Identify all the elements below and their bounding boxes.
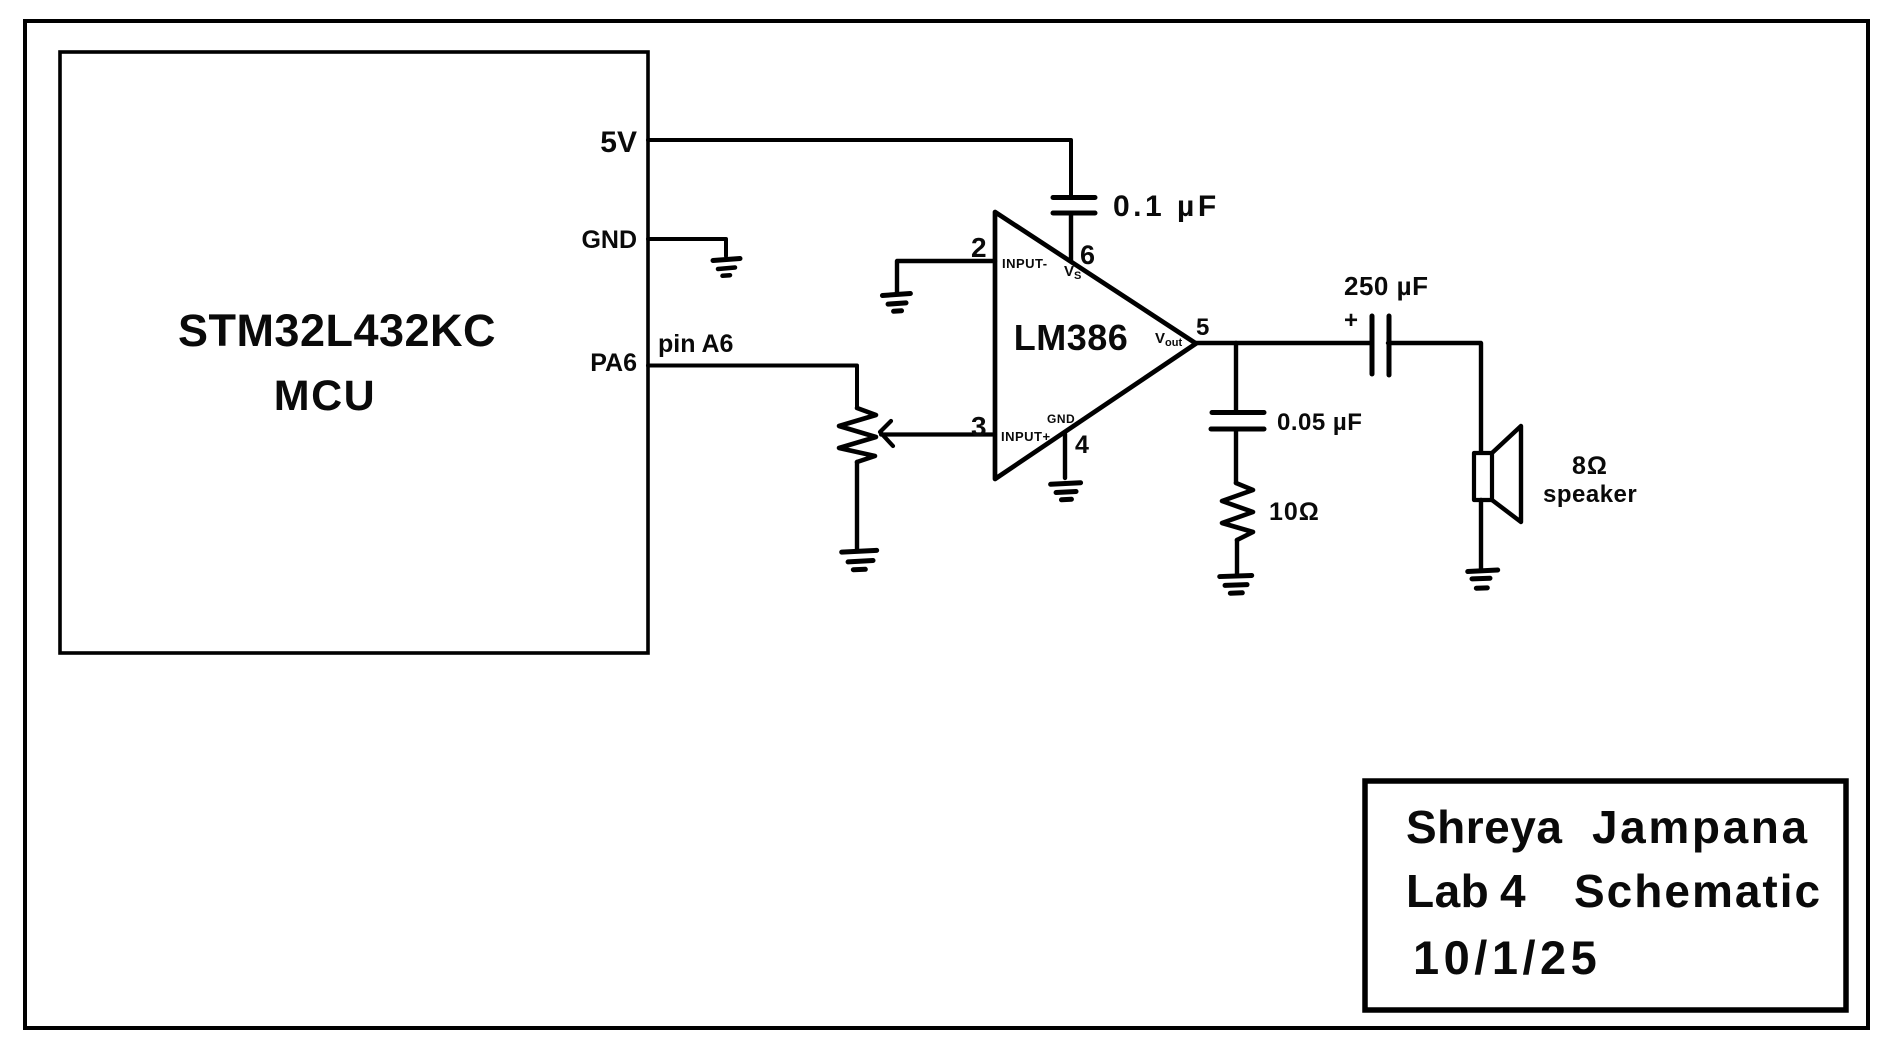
potentiometer R1 bbox=[839, 408, 893, 462]
svg-text:S: S bbox=[1074, 270, 1081, 282]
svg-text:0.1 µF: 0.1 µF bbox=[1113, 190, 1220, 223]
wire R2 to ground bbox=[1235, 540, 1239, 574]
svg-text:V: V bbox=[1155, 330, 1165, 347]
svg-text:PA6: PA6 bbox=[590, 349, 637, 377]
svg-text:+: + bbox=[1344, 307, 1358, 334]
svg-text:STM32L432KC: STM32L432KC bbox=[178, 305, 496, 356]
speaker LS1 bbox=[1474, 426, 1521, 522]
svg-text:GND: GND bbox=[1047, 412, 1075, 426]
svg-text:6: 6 bbox=[1080, 240, 1095, 270]
MCU U1 STM32L432KC bbox=[60, 52, 648, 653]
svg-text:0.05 µF: 0.05 µF bbox=[1277, 409, 1362, 436]
wire C1 to op-amp pin 6 bbox=[1069, 215, 1073, 261]
ground (pin 2) bbox=[882, 294, 911, 312]
op-amp U1 LM386 bbox=[995, 212, 1196, 479]
ground (MCU GND) bbox=[713, 259, 740, 276]
wire C3 to speaker bbox=[1388, 343, 1481, 452]
svg-text:5V: 5V bbox=[600, 126, 637, 159]
svg-text:V: V bbox=[1064, 263, 1074, 280]
ground (pin 4) bbox=[1051, 483, 1082, 501]
capacitor C1 0.1uF bbox=[1053, 198, 1095, 214]
label 8 ohm speaker bbox=[1543, 452, 1637, 508]
wire C2 to R2 bbox=[1234, 431, 1238, 483]
ground (potentiometer) bbox=[842, 550, 878, 570]
svg-text:4: 4 bbox=[1075, 431, 1089, 459]
svg-text:Lab4Schematic: Lab4Schematic bbox=[1406, 865, 1822, 917]
capacitor C3 250uF bbox=[1372, 316, 1389, 375]
svg-text:250 µF: 250 µF bbox=[1344, 271, 1428, 301]
wire pot wiper to op-amp pin 3 bbox=[881, 432, 995, 436]
svg-text:ShreyaJampana: ShreyaJampana bbox=[1406, 801, 1810, 853]
svg-text:2: 2 bbox=[971, 232, 987, 263]
wire speaker to ground bbox=[1479, 500, 1483, 569]
svg-text:out: out bbox=[1165, 337, 1182, 349]
wire op-amp pin 4 to ground bbox=[1063, 434, 1067, 478]
wire Vout node 5 to C3 bbox=[1196, 341, 1372, 345]
svg-text:LM386: LM386 bbox=[1014, 317, 1129, 358]
ground (R2) bbox=[1220, 575, 1253, 593]
wire node 5 to C2 bbox=[1234, 343, 1238, 411]
svg-text:3: 3 bbox=[971, 411, 987, 442]
svg-text:5: 5 bbox=[1196, 314, 1209, 341]
wire potentiometer to ground bbox=[855, 462, 859, 550]
svg-text:8Ω: 8Ω bbox=[1572, 452, 1608, 480]
resistor R2 10ohm bbox=[1222, 483, 1253, 540]
svg-text:10/1/25: 10/1/25 bbox=[1413, 931, 1601, 984]
svg-text:INPUT+: INPUT+ bbox=[1001, 429, 1051, 444]
wire 5V from MCU to C1 bbox=[648, 140, 1071, 196]
capacitor C2 0.05uF bbox=[1211, 413, 1264, 430]
wire op-amp pin 2 to ground bbox=[897, 261, 995, 293]
svg-text:speaker: speaker bbox=[1543, 481, 1637, 508]
ground (speaker) bbox=[1468, 570, 1499, 589]
wire MCU GND pin bbox=[648, 239, 726, 256]
title block bbox=[1365, 781, 1846, 1010]
wire PA6 from MCU to potentiometer bbox=[648, 366, 857, 409]
svg-text:INPUT-: INPUT- bbox=[1002, 256, 1048, 271]
svg-text:GND: GND bbox=[581, 226, 637, 254]
svg-text:pin A6: pin A6 bbox=[658, 330, 733, 358]
svg-text:MCU: MCU bbox=[274, 372, 376, 420]
svg-text:10Ω: 10Ω bbox=[1269, 498, 1320, 526]
